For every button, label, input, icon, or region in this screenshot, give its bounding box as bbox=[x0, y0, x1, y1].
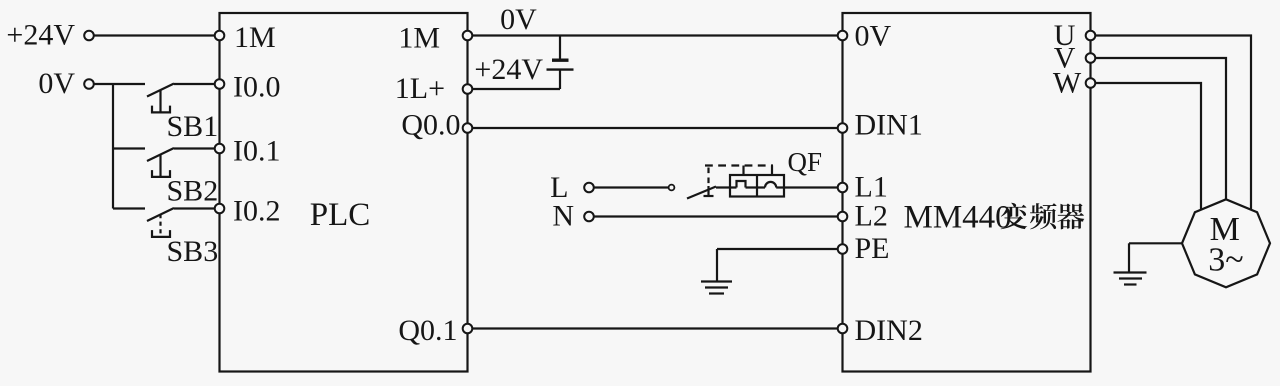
svg-text:SB1: SB1 bbox=[167, 110, 219, 143]
pin L2 bbox=[838, 212, 848, 222]
wire +24V source to PLC 1M bbox=[94, 34, 215, 36]
svg-text:3~: 3~ bbox=[1208, 242, 1243, 279]
svg-text:I0.1: I0.1 bbox=[233, 135, 281, 168]
node L mains terminal bbox=[584, 183, 594, 193]
pin DIN1 bbox=[838, 123, 848, 133]
wire W phase bbox=[1095, 83, 1201, 210]
svg-text:W: W bbox=[1053, 67, 1082, 100]
wire Q0.0 to DIN1 bbox=[472, 127, 837, 129]
wire branch to SB2 bbox=[113, 147, 145, 149]
pin Q0.0 bbox=[463, 123, 473, 133]
breaker QF bbox=[687, 187, 716, 199]
svg-text:1M: 1M bbox=[398, 22, 440, 55]
PLC U1 box bbox=[220, 13, 468, 372]
svg-text:N: N bbox=[552, 200, 574, 233]
wire Q0.1 to DIN2 bbox=[472, 327, 837, 329]
ground PE earth symbol bbox=[701, 280, 732, 282]
battery GB +24V supply bbox=[559, 36, 561, 59]
ground motor earth symbol bbox=[1114, 271, 1147, 273]
svg-text:DIN1: DIN1 bbox=[855, 109, 923, 142]
pin 0V (MM440) bbox=[838, 31, 848, 41]
label 变 (CJK glyph path) bbox=[1001, 203, 1028, 230]
node +24V source terminal bbox=[84, 31, 94, 41]
pin 1M (PLC right) bbox=[463, 31, 473, 41]
wire U phase bbox=[1095, 36, 1251, 210]
pin 1M (PLC left) bbox=[215, 31, 225, 41]
svg-text:QF: QF bbox=[788, 147, 823, 177]
pin 1L+ bbox=[463, 84, 473, 94]
wire 0V branch vertical bus bbox=[112, 84, 114, 209]
svg-text:I0.2: I0.2 bbox=[233, 195, 281, 228]
pushbutton SB2 bbox=[147, 148, 174, 161]
svg-text:MM440: MM440 bbox=[904, 200, 1012, 236]
wire motor frame to earth bbox=[1129, 242, 1182, 244]
svg-text:0V: 0V bbox=[855, 20, 892, 53]
label 频 (CJK glyph path) bbox=[1030, 203, 1057, 229]
wire V phase bbox=[1095, 58, 1226, 199]
pin PE bbox=[838, 244, 848, 254]
svg-text:1L+: 1L+ bbox=[395, 72, 445, 105]
QF fixed contact bbox=[669, 185, 675, 191]
svg-text:DIN2: DIN2 bbox=[855, 314, 923, 347]
svg-text:PE: PE bbox=[855, 232, 890, 265]
pin Q0.1 bbox=[463, 324, 473, 334]
svg-text:1M: 1M bbox=[234, 21, 276, 54]
pin DIN2 bbox=[838, 324, 848, 334]
pin W bbox=[1086, 78, 1096, 88]
svg-text:L2: L2 bbox=[855, 200, 888, 233]
label 器 (CJK glyph path) bbox=[1057, 203, 1084, 229]
pin I0.2 bbox=[215, 204, 225, 214]
pin U bbox=[1086, 31, 1096, 41]
pin V bbox=[1086, 53, 1096, 63]
wire PE to ground bbox=[717, 248, 838, 250]
svg-text:+24V: +24V bbox=[474, 53, 543, 86]
wire 0V rail 1M to MM440 0V bbox=[472, 34, 837, 36]
pushbutton SB3 bbox=[147, 208, 174, 221]
pushbutton SB1 bbox=[147, 84, 174, 97]
pin L1 bbox=[838, 183, 848, 193]
wire QF to L1 bbox=[776, 186, 838, 188]
wire N to L2 bbox=[594, 215, 838, 217]
svg-text:I0.0: I0.0 bbox=[233, 71, 281, 104]
wire 0V source to SB1 bbox=[94, 83, 145, 85]
node N mains terminal bbox=[584, 212, 594, 222]
svg-text:SB2: SB2 bbox=[167, 175, 219, 208]
svg-text:+24V: +24V bbox=[6, 19, 75, 52]
svg-text:PLC: PLC bbox=[310, 197, 371, 233]
pin I0.1 bbox=[215, 144, 225, 154]
motor M 3~ octagon bbox=[1182, 199, 1270, 287]
svg-text:0V: 0V bbox=[38, 67, 75, 100]
pin I0.0 bbox=[215, 79, 225, 89]
MM440 inverter U2 box bbox=[843, 13, 1091, 372]
svg-text:SB3: SB3 bbox=[167, 235, 219, 268]
wire 1L+ to battery bbox=[472, 88, 560, 90]
wire branch to SB3 bbox=[113, 207, 145, 209]
svg-text:0V: 0V bbox=[500, 3, 537, 36]
node 0V source terminal bbox=[84, 79, 94, 89]
svg-text:Q0.0: Q0.0 bbox=[401, 109, 460, 142]
wire L to QF contact bbox=[594, 186, 669, 188]
svg-text:Q0.1: Q0.1 bbox=[398, 314, 457, 347]
